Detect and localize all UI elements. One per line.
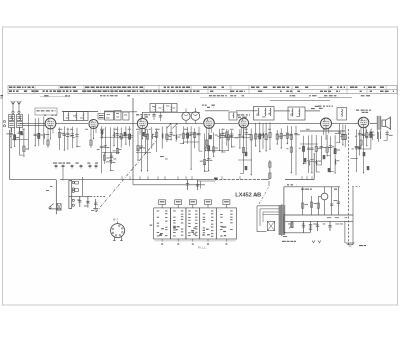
- component cluster x254-272: [255, 123, 257, 145]
- power top rail: [284, 186, 340, 188]
- capacitor C60: [79, 196, 81, 207]
- lower mid rails: [300, 130, 345, 132]
- brace tick 4: [207, 239, 209, 242]
- terminal posts left edge: [3, 120, 5, 122]
- component cluster x182-200: [182, 126, 184, 143]
- right rail riser: [313, 153, 315, 180]
- potentiometer R60: [291, 221, 293, 228]
- component cluster x10-25: [10, 128, 12, 148]
- input transformer L1: [9, 115, 15, 121]
- tube V7 UY85: [358, 117, 369, 128]
- AM detector stub: [102, 152, 120, 154]
- switch label box 2: [175, 200, 182, 205]
- brace under bank: [155, 240, 236, 242]
- cap C83: [329, 221, 331, 231]
- resistor above transformer: [269, 160, 271, 180]
- header sub row: [44, 95, 49, 96]
- vertical drops power: [302, 187, 304, 215]
- component cluster x275-282: [276, 130, 278, 144]
- component cluster x58-78: [59, 127, 61, 150]
- switch wafer S5: [216, 208, 236, 239]
- pointer line right: [259, 188, 269, 205]
- crossed box: [57, 204, 61, 211]
- comp near 215: [215, 178, 217, 181]
- IF can S7: [288, 107, 305, 120]
- IF can S5: [229, 112, 237, 120]
- value label rows: [58, 128, 62, 131]
- brace tick 2: [177, 239, 179, 242]
- power resistors: [302, 203, 304, 208]
- connector strip side view: [69, 181, 72, 209]
- mid row small comps x53-98 y162: [53, 163, 57, 164]
- capacitor C71: [187, 180, 189, 190]
- component cluster x100-132: [101, 126, 103, 173]
- coil windings fill: [9, 116, 13, 118]
- brace tick 5: [225, 239, 227, 242]
- capacitor C72: [197, 180, 199, 190]
- component cluster x374-391: [377, 132, 379, 142]
- wire band switch: [28, 114, 30, 150]
- tube pin drops: [47, 128, 49, 135]
- tube V6 UL84: [321, 118, 332, 129]
- text bottom right: [359, 245, 363, 246]
- tube V5 UBC81: [239, 118, 249, 128]
- component cluster x302-318: [303, 136, 305, 164]
- switch label box 5: [223, 200, 230, 205]
- header parts-list band: [8, 85, 397, 93]
- main ground rail: [10, 179, 56, 181]
- rectifier small circle: [321, 193, 328, 200]
- component cluster x285-299: [286, 126, 288, 144]
- IF coil boxes between V2-V3: [105, 111, 114, 120]
- switch wafer S3: [186, 208, 200, 239]
- loudspeaker LS: [382, 117, 390, 131]
- arrows at 313: [312, 241, 321, 243]
- electrolytic C80: [303, 221, 305, 233]
- switch label box 3: [189, 200, 196, 205]
- caps under S4 box: [153, 112, 155, 120]
- svg-text:P.I.L.L.: P.I.L.L.: [198, 245, 207, 249]
- ground stubs on rail: [121, 176, 123, 180]
- switch wafer S1: [154, 208, 171, 239]
- side tick: [150, 225, 153, 226]
- tube V2 UF89: [89, 119, 98, 128]
- labels bottom: [282, 241, 286, 242]
- small comps on stubs: [75, 181, 79, 184]
- plate wires: [20, 122, 45, 124]
- low rail: [284, 220, 353, 222]
- input transformer L2: [17, 115, 23, 121]
- svg-text:B-7: B-7: [113, 217, 118, 221]
- tube socket B-7 bottom view: [111, 221, 125, 240]
- mains transformer T1 windings: [279, 205, 286, 234]
- gram switch wire: [69, 195, 91, 197]
- IF can S6: [254, 107, 275, 121]
- tube V4 UBF80: [204, 118, 215, 129]
- tube V1 UCH81: [45, 118, 56, 129]
- tube labels: [44, 115, 46, 116]
- switch wafer S4: [200, 208, 217, 239]
- label box above V2: [98, 114, 105, 120]
- switch label box 1: [159, 200, 166, 205]
- component cluster x218-234: [219, 129, 221, 151]
- component cluster x203-216: [204, 133, 206, 171]
- wire coil to V1: [23, 124, 46, 126]
- label box C-19A: [35, 108, 57, 115]
- dark component bodies: [20, 131, 23, 135]
- IF can S2: [64, 112, 89, 121]
- switch symbol: [49, 208, 61, 210]
- cap C82: [317, 221, 319, 231]
- component cluster x136-150: [137, 131, 139, 160]
- output transformer T2: [377, 116, 381, 129]
- diode arrow: [87, 196, 89, 207]
- bottom rail: [284, 232, 310, 234]
- component cluster x238-252: [239, 129, 241, 148]
- pointer line to switch unit: [96, 141, 156, 212]
- sub rail: [133, 184, 205, 186]
- horizontal stub wires: [100, 136, 133, 138]
- wire: [69, 179, 71, 182]
- speaker wires: [377, 131, 379, 140]
- component cluster x355-372: [355, 129, 357, 172]
- ground right: [346, 242, 355, 244]
- switch wafer S2: [171, 208, 186, 239]
- nested shield boxes: [257, 205, 279, 207]
- electrolytic C81 double: [310, 221, 312, 233]
- power area labels: [327, 216, 331, 219]
- HT dashed vertical: [348, 129, 350, 245]
- component cluster x150-164: [151, 127, 153, 148]
- component cluster x32-46: [34, 118, 36, 145]
- antenna A1: [11, 101, 15, 113]
- left rail riser: [9, 130, 11, 180]
- header text row 2: [9, 90, 12, 92]
- dash right of riser: [352, 185, 360, 187]
- mains plug crossed box: [267, 221, 274, 230]
- long vertical screen wire: [132, 98, 134, 180]
- mid rail: [284, 214, 353, 216]
- IF can S4: [150, 104, 177, 113]
- brace tick 1: [161, 239, 163, 242]
- input coil box row2: [9, 122, 15, 128]
- tube V3 UCH81: [137, 118, 147, 128]
- header text row 1: [9, 87, 12, 88]
- coupling coil: [337, 108, 347, 121]
- text under rail: [287, 184, 289, 185]
- top rail segments: [62, 111, 98, 113]
- component cluster x337-347: [339, 124, 341, 142]
- switch label box 4: [205, 200, 212, 205]
- component cluster x164-178: [166, 126, 168, 142]
- antenna A2: [17, 101, 21, 113]
- capacitor C61 + ground: [95, 199, 97, 209]
- component cluster x320-337: [320, 136, 322, 165]
- brace tick 3: [192, 239, 194, 242]
- oscillator coil circles: [182, 112, 190, 120]
- V3 top cap wire: [141, 112, 143, 118]
- trimmer arrows near V3: [167, 124, 172, 129]
